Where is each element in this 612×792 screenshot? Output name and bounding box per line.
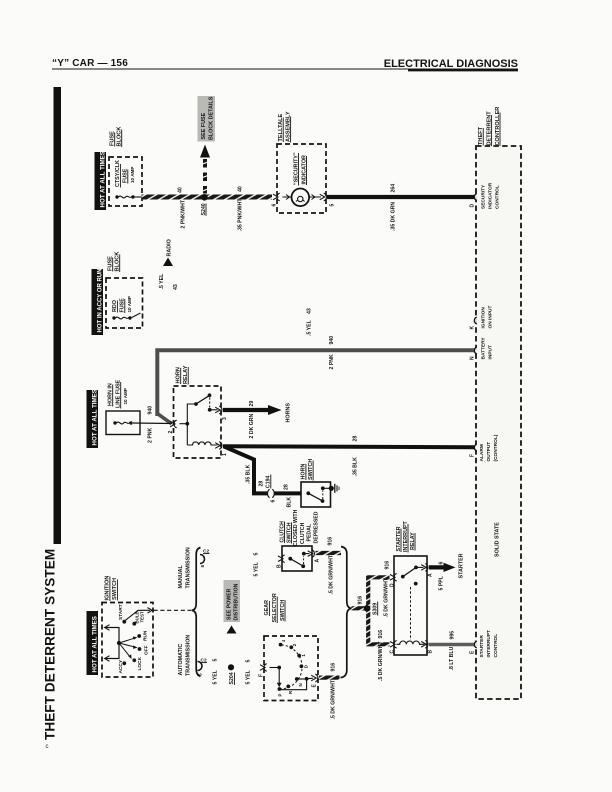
svg-text:AUTOMATIC: AUTOMATIC [178, 644, 184, 676]
svg-text:10 AMP: 10 AMP [123, 388, 128, 404]
wire pin-of-fuse to S240: 2 PNK/WHT striped [135, 196, 142, 198]
svg-text:CLUTCH: CLUTCH [300, 522, 306, 544]
svg-text:2 PNK: 2 PNK [148, 427, 154, 443]
splice S240 dot [201, 194, 208, 201]
svg-text:28: 28 [284, 484, 290, 490]
header rule [52, 68, 518, 70]
svg-text:D: D [470, 204, 476, 208]
contact to pin 3 [210, 409, 218, 411]
svg-text:HOT AT ALL TIMES: HOT AT ALL TIMES [91, 616, 98, 672]
ignition switch label [105, 576, 119, 601]
svg-text:40: 40 [178, 187, 184, 193]
relay K2 coil [397, 641, 425, 644]
horn switch label [301, 459, 314, 481]
relay K2 contacts [401, 575, 405, 579]
svg-text:RADIO: RADIO [167, 239, 173, 256]
svg-text:6: 6 [438, 562, 444, 565]
svg-text:F: F [470, 454, 476, 457]
splice S204 [228, 664, 234, 670]
svg-text:995: 995 [450, 631, 456, 640]
connector C2 (automatic) [198, 662, 203, 671]
connector at telltale pin 6 [273, 193, 280, 201]
wire S309 down to relay pin C striped [368, 608, 389, 644]
connector C2 (manual) [200, 555, 205, 564]
rotor arrows [119, 638, 136, 643]
fuse F1 CTSY/CLK FUSE 10 AMP labels [115, 160, 135, 188]
power label HOT IN ACCY OR RUN [92, 268, 104, 335]
relay internal: common node [180, 423, 188, 425]
svg-text:CONTROL: CONTROL [493, 634, 499, 658]
svg-text:B: B [428, 650, 434, 654]
svg-text:5: 5 [200, 565, 206, 568]
connector horn relay pin 2 [170, 420, 177, 428]
wire S240 to telltale pin 6: .35 PNK/WHT striped [205, 195, 272, 200]
svg-text:28: 28 [259, 481, 265, 487]
svg-text:5: 5 [245, 660, 251, 663]
node: RADIO feed arrow [163, 258, 173, 267]
wire fuse to horn relay pin 2 [133, 422, 172, 425]
clutch switch box SW3 [282, 546, 312, 571]
svg-text:2: 2 [168, 431, 174, 434]
gear selector switch box SW4 (dashed) [264, 636, 318, 701]
position OFF [138, 647, 142, 651]
svg-text:N: N [298, 683, 303, 686]
svg-text:5: 5 [253, 553, 259, 556]
svg-text:.5 YEL: .5 YEL [307, 319, 313, 336]
horn relay label [176, 365, 190, 384]
svg-text:5: 5 [330, 204, 336, 207]
svg-text:P: P [278, 694, 283, 697]
svg-text:6: 6 [271, 500, 277, 503]
gear position contacts P R N D 2 1 [278, 687, 282, 691]
svg-text:BLK: BLK [287, 497, 293, 508]
telltale assembly box (dashed) [277, 144, 326, 213]
svg-text:264: 264 [391, 184, 397, 193]
lead into bulb left [283, 196, 292, 198]
svg-text:3: 3 [222, 417, 228, 420]
starter interrupt relay box K2 [394, 556, 427, 655]
dashed wire ignition START to transmission brace [154, 609, 192, 611]
position ACCY [122, 661, 126, 665]
brace merging manual/automatic to starter interrupt [341, 547, 352, 678]
svg-text:5 YEL: 5 YEL [245, 669, 251, 684]
svg-text:.5 DK GRN/WHT: .5 DK GRN/WHT [378, 641, 384, 681]
svg-text:.8 LT BLU: .8 LT BLU [449, 646, 455, 670]
position BULB TEST [132, 622, 136, 626]
connector clutch pin A [308, 550, 315, 558]
connector gear pin F [260, 664, 267, 672]
clutch switch labels [279, 509, 319, 546]
starter interrupt relay label [396, 520, 416, 552]
svg-text:MANUAL: MANUAL [178, 564, 184, 588]
relay internal: drop to coil [186, 424, 188, 445]
svg-text:940: 940 [148, 406, 154, 415]
svg-text:B: B [277, 564, 283, 568]
wire telltale pin5 to controller pin D: .35 DK GRN [327, 195, 474, 199]
svg-text:THEFT DETERRENT SYSTEM: THEFT DETERRENT SYSTEM [43, 549, 58, 740]
connector gear pin E [311, 674, 318, 682]
arrow to SEE POWER DISTRIBUTION [227, 626, 237, 634]
theft deterrent controller box U1 (dashed) [476, 146, 521, 699]
svg-text:.5 DK GRN/WHT: .5 DK GRN/WHT [331, 679, 337, 719]
svg-text:A: A [315, 559, 321, 563]
relay armature dashed link [209, 398, 211, 408]
svg-text:43: 43 [307, 308, 313, 314]
svg-text:STARTER: STARTER [479, 635, 485, 658]
pin N [474, 347, 476, 354]
svg-text:916: 916 [331, 663, 337, 672]
svg-text:SOLID STATE: SOLID STATE [495, 522, 501, 557]
svg-text:IGNITION: IGNITION [481, 307, 487, 329]
svg-text:OUTPUT: OUTPUT [486, 442, 492, 462]
svg-text:.35 DK GRN: .35 DK GRN [391, 202, 397, 231]
svg-text:PEDAL: PEDAL [307, 523, 313, 541]
svg-text:BATTERY: BATTERY [481, 337, 487, 360]
wire branch pin 1 to horn switch: .35 BLK [224, 446, 268, 493]
wire 2 PNK 940 horizontal to controller pin N [157, 350, 474, 416]
svg-text:c: c [46, 744, 49, 750]
svg-text:TRANSMISSION: TRANSMISSION [185, 635, 191, 676]
horn in-line fuse labels [108, 379, 129, 408]
SECURITY INDICATOR lamp [292, 189, 310, 207]
connector relay pin D [390, 574, 397, 582]
svg-text:D: D [304, 665, 309, 668]
svg-text:HOT AT ALL TIMES: HOT AT ALL TIMES [99, 151, 106, 207]
pin F [474, 444, 476, 451]
wire START contact to box edge [125, 610, 150, 621]
wire C194 to horn switch: BLK 28 [275, 491, 302, 495]
wire clutch A to brace: .5 DK GRN/WHT 916 striped [316, 551, 342, 555]
fuse element CTSY/CLK [115, 195, 134, 198]
fuse RDO FUSE 10 AMP labels [112, 296, 132, 313]
svg-text:.5 DK GRN/WHT: .5 DK GRN/WHT [329, 554, 335, 594]
svg-text:5: 5 [212, 659, 218, 662]
svg-text:ELECTRICAL DIAGNOSIS: ELECTRICAL DIAGNOSIS [384, 58, 518, 70]
wire pin 1 to controller pin F: .35 BLK 28 [223, 446, 474, 447]
svg-text:F: F [259, 674, 265, 677]
wire gear E to brace: .5 DK GRN/WHT 916 striped [319, 675, 340, 679]
lamp labels "SECURITY" INDICATOR [293, 152, 307, 185]
svg-text:LOCK: LOCK [137, 656, 143, 670]
splice S309 [364, 605, 370, 611]
clutch switch contacts [288, 557, 292, 561]
relay contact arm (normally open) [196, 396, 209, 404]
horn switch contacts [306, 491, 310, 495]
gear wiper feed [270, 667, 280, 669]
svg-text:RUN: RUN [143, 630, 149, 641]
svg-text:START: START [118, 604, 124, 620]
svg-text:K: K [470, 326, 476, 330]
connector relay pin A [421, 564, 428, 572]
svg-text:2 PNK: 2 PNK [329, 354, 335, 370]
ignition feed terminals and bracket [105, 625, 110, 631]
connector relay pin C [390, 641, 397, 649]
svg-text:STARTER: STARTER [459, 553, 465, 578]
horn relay box K1 (dashed) [174, 386, 222, 458]
svg-text:.5 DK GRN/WHT: .5 DK GRN/WHT [384, 577, 390, 617]
power label HOT AT ALL TIMES (top) [95, 151, 107, 210]
wire 2 DK GRN 29 to horns (arrow) [223, 408, 270, 412]
power label HOT AT ALL TIMES (ignition) [87, 611, 99, 675]
horn switch box SW1 [301, 482, 331, 507]
svg-text:.35 PNK/WHT: .35 PNK/WHT [238, 198, 244, 232]
connector at telltale pin 5 [320, 193, 327, 201]
svg-text:INDICATOR: INDICATOR [488, 182, 494, 209]
wire 5 PPL 6 to starter (arrow) [429, 565, 446, 569]
svg-text:28: 28 [353, 436, 359, 442]
note SEE POWER DISTRIBUTION (gray tag) [224, 580, 241, 622]
lead out of bulb right [310, 196, 322, 198]
label AUTOMATIC TRANSMISSION [178, 635, 192, 676]
fuse element RDO [112, 316, 131, 319]
svg-text:TRANSMISSION: TRANSMISSION [185, 547, 191, 588]
ignition rotor pivot [117, 641, 121, 645]
svg-text:N: N [470, 356, 476, 360]
connector horn relay pin 1 [215, 442, 222, 450]
wire S309 up to relay pin D striped [368, 577, 389, 608]
relay internal: riser to contact arm [187, 404, 196, 424]
label MANUAL TRANSMISSION [178, 547, 192, 588]
gear selector switch labels [264, 593, 286, 623]
svg-text:C: C [390, 650, 396, 654]
pin E [474, 641, 476, 648]
svg-text:.35 BLK: .35 BLK [246, 464, 252, 484]
pin K [474, 317, 476, 324]
theft deterrent controller label [478, 107, 501, 146]
position START [122, 620, 126, 624]
svg-text:SEE FUSE: SEE FUSE [201, 112, 207, 139]
svg-text:INPUT: INPUT [488, 345, 494, 359]
svg-text:40: 40 [238, 186, 244, 192]
svg-text:HOT AT ALL TIMES: HOT AT ALL TIMES [91, 389, 98, 445]
wire brace to S309 striped [352, 606, 367, 610]
svg-text:.35 BLK: .35 BLK [353, 457, 359, 477]
fuse element horn [113, 421, 132, 424]
svg-text:5 PPL: 5 PPL [438, 575, 444, 590]
fuse block box (dashed) [109, 157, 142, 206]
svg-text:“Y” CAR — 156: “Y” CAR — 156 [52, 58, 128, 69]
svg-text:CLOSED WITH: CLOSED WITH [293, 509, 299, 546]
fuse block label (middle) [108, 252, 121, 272]
svg-text:29: 29 [249, 401, 255, 407]
arrowhead to SEE FUSE BLOCK DETAILS [200, 145, 210, 158]
wire 2 PNK riser elbow to horn fuse junction [157, 414, 171, 424]
svg-text:INTERRUPT: INTERRUPT [486, 630, 492, 658]
gear P and N to pin E links [279, 679, 306, 690]
note SEE FUSE BLOCK DETAILS (gray tag) [198, 96, 216, 142]
svg-text:HOT IN ACCY OR RUN: HOT IN ACCY OR RUN [97, 268, 103, 332]
svg-text:BLOCK DETAILS: BLOCK DETAILS [208, 96, 214, 140]
svg-text:5: 5 [197, 673, 203, 676]
position LOCK [132, 658, 136, 662]
svg-text:DISTRIBUTION: DISTRIBUTION [234, 583, 240, 620]
svg-text:916: 916 [384, 561, 390, 570]
svg-text:1: 1 [222, 453, 228, 456]
ground G1 (horn switch) [329, 486, 334, 491]
left margin bar [54, 87, 62, 544]
svg-text:916: 916 [328, 537, 334, 546]
svg-text:A: A [428, 573, 434, 577]
svg-text:HORNS: HORNS [286, 403, 292, 423]
svg-text:.5 YEL: .5 YEL [159, 273, 165, 290]
brace splitting to manual / automatic [192, 548, 201, 677]
svg-text:OFF: OFF [143, 645, 149, 655]
svg-text:10 AMP: 10 AMP [130, 167, 135, 183]
connector horn relay pin 3 [215, 406, 222, 414]
pin D [474, 194, 476, 201]
svg-text:2 PNK/WHT: 2 PNK/WHT [181, 199, 187, 228]
svg-text:916: 916 [358, 596, 364, 605]
svg-text:43: 43 [173, 284, 179, 290]
telltale assembly label [278, 111, 291, 142]
gear position arc (dashed) [280, 645, 303, 689]
svg-text:5 YEL: 5 YEL [212, 669, 218, 684]
svg-text:6: 6 [272, 204, 278, 207]
ignition switch box SW2 (dashed) [102, 603, 153, 678]
svg-text:SECURITY: SECURITY [481, 184, 487, 209]
fuse lead to box edge [132, 313, 141, 318]
svg-text:916: 916 [378, 630, 384, 639]
svg-text:DEPRESSED: DEPRESSED [313, 511, 319, 543]
svg-text:2 DK GRN: 2 DK GRN [249, 413, 255, 438]
fuse block label (top) [110, 127, 123, 147]
connector clutch pin B [278, 555, 285, 563]
power label HOT AT ALL TIMES (horn fuse) [87, 389, 99, 448]
position RUN [137, 634, 141, 638]
svg-text:D: D [390, 583, 396, 587]
svg-text:TEST: TEST [139, 611, 144, 623]
svg-text:(CONTROL): (CONTROL) [493, 434, 499, 461]
svg-text:5 YEL: 5 YEL [253, 561, 259, 576]
svg-text:ACCY: ACCY [118, 659, 124, 673]
svg-text:ALARM: ALARM [479, 444, 485, 461]
connector C194 [267, 489, 269, 498]
svg-text:ON INPUT: ON INPUT [488, 306, 494, 329]
connector relay pin B [421, 641, 428, 649]
svg-text:940: 940 [329, 336, 335, 345]
svg-text:10 AMP: 10 AMP [127, 296, 132, 312]
wire .8 LT BLU 995 to controller pin E [429, 643, 474, 647]
horn in-line fuse box [106, 411, 140, 435]
relay coil L1 [187, 442, 217, 445]
svg-text:CONTROL: CONTROL [495, 185, 501, 209]
svg-text:SEE POWER: SEE POWER [227, 588, 233, 620]
dashed striped riser from S240 up [203, 159, 207, 194]
fuse block box RDO (dashed) [106, 278, 143, 328]
